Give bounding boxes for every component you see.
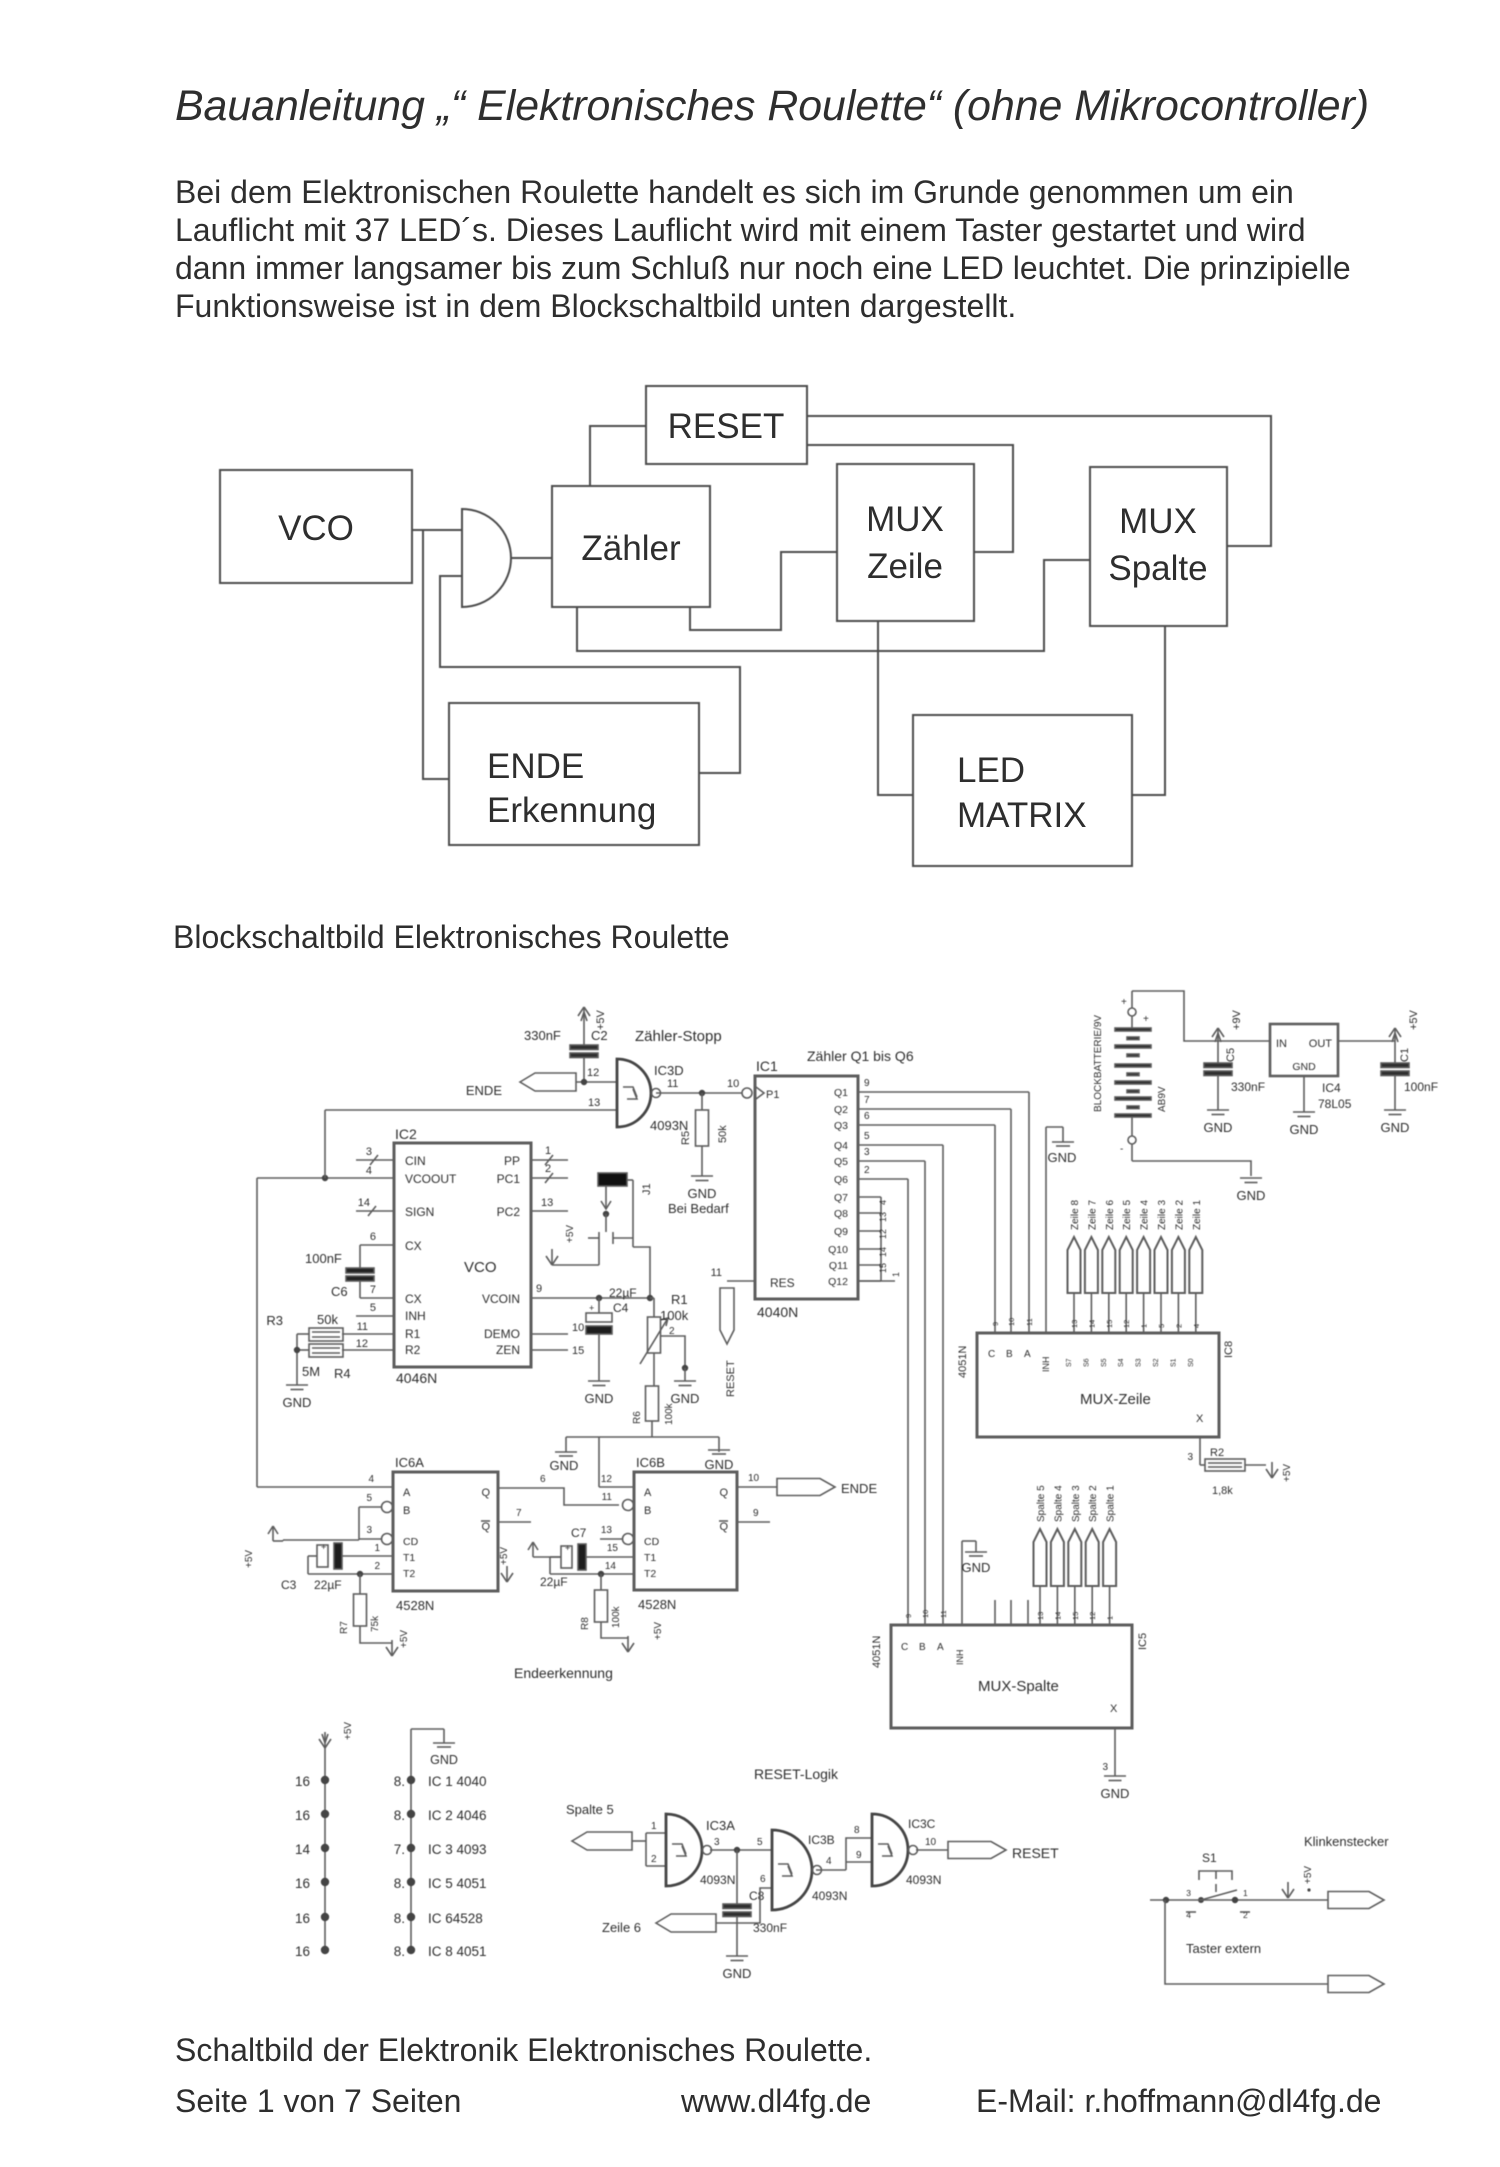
svg-text:15: 15 — [1105, 1320, 1114, 1328]
svg-text:LED: LED — [957, 751, 1025, 790]
svg-text:Q11: Q11 — [829, 1260, 848, 1272]
supply +9V antenna at C5 — [1212, 1009, 1243, 1044]
voltage regulator IC4 78L05 — [1270, 1024, 1352, 1112]
svg-text:+: + — [1121, 997, 1127, 1008]
svg-text:J1: J1 — [641, 1183, 653, 1195]
svg-text:+5V: +5V — [653, 1622, 664, 1640]
svg-text:6: 6 — [864, 1111, 870, 1122]
svg-text:GND: GND — [1048, 1150, 1077, 1165]
wire VCOOUT up to gate IC3D — [325, 1110, 617, 1178]
svg-text:Seite 1 von 7 Seiten: Seite 1 von 7 Seiten — [175, 2083, 461, 2119]
supply +5V above C2 — [578, 1007, 607, 1030]
svg-text:14: 14 — [1087, 1320, 1096, 1328]
wire R6 ground net — [566, 1437, 719, 1487]
node ENDE output connector — [777, 1479, 877, 1497]
svg-text:+: + — [321, 1542, 326, 1552]
MUX-Spalte 4051N box IC5 — [871, 1625, 1149, 1728]
ground GND at MUX-Zeile INH — [1046, 1127, 1076, 1333]
svg-text:IC3C: IC3C — [908, 1817, 936, 1831]
svg-text:13: 13 — [1070, 1320, 1079, 1328]
MUX Zeile box — [837, 464, 974, 621]
svg-text:C: C — [988, 1349, 995, 1360]
wire to lower connector — [1165, 1900, 1328, 1984]
svg-text:14: 14 — [295, 1842, 311, 1857]
svg-text:11: 11 — [1025, 1318, 1034, 1326]
svg-text:CX: CX — [405, 1292, 422, 1306]
svg-text:4051N: 4051N — [871, 1636, 883, 1668]
svg-text:50k: 50k — [317, 1312, 338, 1327]
svg-text:IC6A: IC6A — [395, 1455, 424, 1470]
jumper J1 — [598, 1173, 653, 1195]
svg-text:+: + — [1143, 1014, 1149, 1025]
battery BLOCKBATTERIE 9V — [1093, 991, 1168, 1161]
ground GND below C5 — [1204, 1110, 1233, 1135]
svg-text:12: 12 — [1088, 1612, 1097, 1620]
svg-text:Spalte 5: Spalte 5 — [1036, 1485, 1047, 1522]
supply +5V at IC6A B — [244, 1526, 283, 1568]
svg-text:+5V: +5V — [565, 1225, 576, 1243]
svg-text:+5V: +5V — [244, 1550, 255, 1568]
potentiometer R1 100k — [640, 1292, 689, 1364]
svg-text:MUX-Zeile: MUX-Zeile — [1080, 1391, 1151, 1408]
svg-text:P1: P1 — [766, 1089, 779, 1101]
svg-text:15: 15 — [878, 1263, 888, 1273]
svg-text:5: 5 — [864, 1131, 870, 1142]
IC6A Q-bar stub — [498, 1508, 531, 1522]
svg-text:16: 16 — [295, 1808, 310, 1823]
capacitor C5 330nF — [1204, 1044, 1265, 1110]
svg-text:+5V: +5V — [1408, 1009, 1420, 1030]
svg-text:2: 2 — [374, 1561, 380, 1572]
svg-text:12: 12 — [878, 1229, 888, 1239]
svg-text:8.: 8. — [394, 1774, 405, 1789]
op-amp gate IC3C 4093N — [872, 1814, 941, 1887]
wire IC6B T2 line — [550, 1557, 634, 1577]
svg-text:S0: S0 — [1188, 1358, 1195, 1367]
svg-text:+5V: +5V — [399, 1630, 410, 1648]
svg-text:9: 9 — [536, 1283, 542, 1295]
resistor R3 50k — [266, 1312, 394, 1350]
node Zeile 6 connector — [656, 1914, 716, 1932]
svg-text:+: + — [565, 1543, 570, 1553]
svg-text:3: 3 — [714, 1837, 720, 1848]
IC1 4040N counter box — [755, 1058, 858, 1320]
svg-text:78L05: 78L05 — [1318, 1097, 1352, 1111]
ground GND left of IC6B — [550, 1452, 579, 1473]
svg-text:S7: S7 — [1066, 1358, 1073, 1367]
svg-text:IC 3 4093: IC 3 4093 — [428, 1842, 487, 1857]
svg-text:Q1: Q1 — [834, 1087, 848, 1099]
transistor J1 FET — [552, 1180, 650, 1298]
svg-text:10: 10 — [748, 1473, 760, 1484]
svg-text:C7: C7 — [571, 1526, 587, 1540]
op-amp gate IC3B 4093N — [772, 1830, 847, 1910]
svg-text:Spalte 2: Spalte 2 — [1088, 1485, 1099, 1522]
svg-text:C: C — [901, 1642, 908, 1653]
ground GND below MUX-Spalte — [1101, 1776, 1130, 1801]
IC2 4046N VCO box — [394, 1126, 531, 1386]
svg-text:15: 15 — [572, 1345, 584, 1357]
svg-text:Spalte 4: Spalte 4 — [1053, 1485, 1064, 1522]
svg-text:BLOCKBATTERIE/9V: BLOCKBATTERIE/9V — [1093, 1015, 1104, 1112]
svg-text:+: + — [589, 1303, 594, 1313]
svg-text:GND: GND — [723, 1966, 752, 1981]
svg-text:1: 1 — [651, 1821, 657, 1832]
svg-text:22µF: 22µF — [609, 1286, 637, 1300]
svg-text:B: B — [403, 1505, 410, 1517]
AND gate (block diagram) — [462, 509, 511, 607]
svg-text:1: 1 — [1140, 1324, 1149, 1328]
svg-text:Bei Bedarf: Bei Bedarf — [668, 1201, 729, 1216]
svg-text:GND: GND — [1290, 1122, 1319, 1137]
svg-text:+9V: +9V — [1231, 1009, 1243, 1030]
svg-text:2: 2 — [545, 1163, 551, 1175]
svg-text:C3: C3 — [281, 1578, 297, 1592]
svg-text:GND: GND — [283, 1395, 312, 1410]
capacitor C7 22µF — [540, 1526, 634, 1589]
svg-text:Zeile 4: Zeile 4 — [1140, 1200, 1151, 1230]
svg-text:7: 7 — [864, 1095, 870, 1106]
wire battery plus to IC4 IN — [1132, 991, 1270, 1041]
node Spalte 5 connector — [572, 1832, 632, 1850]
svg-text:100k: 100k — [664, 1402, 675, 1425]
wire left rail into IC6A pin4 A — [368, 1474, 374, 1485]
svg-text:Q8: Q8 — [834, 1208, 848, 1220]
svg-text:Zeile 2: Zeile 2 — [1174, 1200, 1185, 1230]
svg-text:S2: S2 — [1153, 1358, 1160, 1367]
svg-text:S6: S6 — [1083, 1358, 1090, 1367]
svg-text:9: 9 — [753, 1508, 759, 1519]
wire Zähler bottom to MUX Spalte — [577, 560, 1090, 651]
svg-text:10: 10 — [925, 1837, 937, 1848]
wire Zähler bottom to MUX Zeile — [690, 552, 837, 630]
svg-text:16: 16 — [295, 1911, 310, 1926]
wire RESET to MUX Spalte — [807, 416, 1271, 546]
svg-text:PC2: PC2 — [497, 1205, 521, 1219]
svg-text:C4: C4 — [613, 1301, 629, 1315]
svg-text:R2: R2 — [405, 1343, 421, 1357]
wire VCOOUT net — [257, 1175, 394, 1181]
svg-text:R6: R6 — [632, 1411, 643, 1424]
capacitor C2 330nF — [524, 1023, 608, 1082]
capacitor C4 22µF — [586, 1286, 637, 1381]
resistor R7 75k — [339, 1574, 392, 1643]
svg-text:+5V: +5V — [595, 1009, 607, 1030]
svg-text:RESET: RESET — [725, 1360, 737, 1397]
svg-text:RES: RES — [770, 1276, 795, 1290]
resistor R6 100k — [632, 1353, 675, 1437]
wire Zähler top to RESET — [590, 426, 646, 486]
svg-text:Blockschaltbild Elektronisches: Blockschaltbild Elektronisches Roulette — [173, 919, 730, 955]
svg-text:22µF: 22µF — [540, 1575, 568, 1589]
svg-text:VCO: VCO — [278, 509, 354, 548]
svg-text:8.: 8. — [394, 1944, 405, 1959]
svg-text:16: 16 — [295, 1876, 310, 1891]
svg-text:B: B — [644, 1505, 651, 1517]
svg-text:C1: C1 — [1399, 1048, 1411, 1062]
svg-text:T1: T1 — [644, 1552, 656, 1564]
svg-text:IC3B: IC3B — [808, 1833, 835, 1847]
label RESET-Logik — [754, 1766, 839, 1782]
resistor R4 5M — [297, 1344, 394, 1381]
svg-text:4528N: 4528N — [396, 1598, 434, 1613]
svg-text:13: 13 — [601, 1525, 613, 1536]
IC6A +5V supply mark — [499, 1547, 513, 1582]
IC2 pin14 SIGN stub — [356, 1197, 394, 1216]
switch S1 — [1186, 1851, 1250, 1920]
svg-text:www.dl4fg.de: www.dl4fg.de — [680, 2083, 871, 2119]
svg-text:B: B — [919, 1642, 926, 1653]
supply +5V at R2 — [1266, 1462, 1293, 1482]
svg-text:8.: 8. — [394, 1808, 405, 1823]
svg-text:4093N: 4093N — [812, 1889, 847, 1903]
svg-text:5: 5 — [757, 1837, 763, 1848]
node RESET output connector — [948, 1842, 1059, 1862]
capacitor C6 100nF — [305, 1245, 394, 1316]
svg-text:1: 1 — [891, 1272, 901, 1277]
svg-text:PP: PP — [504, 1154, 520, 1168]
svg-text:4528N: 4528N — [638, 1597, 676, 1612]
svg-text:R1: R1 — [405, 1327, 421, 1341]
svg-text:IC4: IC4 — [1322, 1081, 1341, 1095]
svg-text:A: A — [644, 1487, 652, 1499]
svg-text:11: 11 — [939, 1610, 948, 1618]
IC6A 4528N box — [393, 1455, 498, 1613]
svg-text:Lauflicht mit 37 LED´s. Dieses: Lauflicht mit 37 LED´s. Dieses Lauflicht… — [175, 212, 1306, 248]
svg-text:9: 9 — [864, 1078, 870, 1089]
svg-text:R4: R4 — [334, 1366, 351, 1381]
svg-text:Taster extern: Taster extern — [1186, 1941, 1261, 1956]
svg-text:11: 11 — [357, 1321, 368, 1333]
IC6B Q-bar stub — [737, 1508, 770, 1522]
ENDE Erkennung box — [449, 703, 699, 845]
IC2 right pin10 DEMO stub — [531, 1322, 584, 1334]
resistor R5 50k — [680, 1093, 729, 1176]
wire switch main — [1150, 1897, 1328, 1903]
connectors Zeile 8..1 — [1068, 1200, 1203, 1333]
svg-text:3: 3 — [366, 1146, 372, 1158]
svg-text:GND: GND — [1292, 1061, 1316, 1073]
svg-text:Zeile 7: Zeile 7 — [1087, 1200, 1098, 1230]
svg-text:Q: Q — [481, 1521, 490, 1533]
wire IC6A T2 line — [308, 1556, 393, 1577]
wire into IC6B pin12 A — [599, 1474, 634, 1487]
svg-text:9: 9 — [856, 1850, 862, 1861]
svg-text:10: 10 — [921, 1610, 930, 1618]
svg-text:Zeile: Zeile — [867, 547, 943, 586]
LED MATRIX box — [913, 715, 1132, 866]
svg-text:7: 7 — [370, 1284, 376, 1296]
svg-text:Q: Q — [481, 1487, 490, 1499]
svg-text:4: 4 — [368, 1474, 374, 1485]
wire R3/R4 to ground — [294, 1334, 300, 1385]
svg-text:12: 12 — [356, 1338, 368, 1350]
svg-text:Klinkenstecker: Klinkenstecker — [1304, 1834, 1389, 1849]
IC6B pin11 B bubble — [602, 1492, 634, 1511]
IC2 right pin1 PP stub — [531, 1145, 568, 1165]
svg-text:4093N: 4093N — [650, 1118, 688, 1133]
wire gate output to Zähler — [511, 557, 552, 559]
svg-text:Zähler-Stopp: Zähler-Stopp — [635, 1028, 722, 1045]
svg-text:Spalte 3: Spalte 3 — [1071, 1485, 1082, 1522]
svg-text:2: 2 — [1174, 1324, 1183, 1328]
svg-text:SIGN: SIGN — [405, 1205, 434, 1219]
svg-text:A: A — [1024, 1349, 1031, 1360]
svg-text:MUX: MUX — [866, 500, 944, 539]
svg-text:4: 4 — [1192, 1324, 1201, 1328]
ground GND below C4 — [585, 1381, 614, 1406]
svg-text:T2: T2 — [403, 1568, 415, 1580]
ground GND below C1 — [1381, 1110, 1410, 1135]
svg-text:X: X — [1110, 1703, 1118, 1715]
svg-text:50k: 50k — [717, 1125, 729, 1143]
IC1 Q6 wire to MUX-Spalte C — [858, 1165, 913, 1626]
svg-text:Q3: Q3 — [834, 1120, 848, 1132]
RESET box — [646, 386, 807, 464]
svg-text:3: 3 — [1186, 1888, 1191, 1898]
IC6A pin5 B bubble — [359, 1493, 393, 1513]
IC2 right pin13 PC2 stub — [531, 1197, 568, 1211]
svg-text:R8: R8 — [580, 1617, 591, 1630]
IC1 Q7-Q12 unused stubs — [858, 1197, 901, 1281]
svg-text:10: 10 — [572, 1322, 584, 1334]
IC6A pin3 CD bubble — [359, 1525, 393, 1545]
supply +5V below R8 — [622, 1622, 664, 1652]
svg-text:S1: S1 — [1202, 1851, 1217, 1865]
svg-text:IN: IN — [1276, 1038, 1287, 1050]
svg-text:10: 10 — [1007, 1318, 1016, 1326]
svg-text:DEMO: DEMO — [484, 1327, 520, 1341]
svg-text:Erkennung: Erkennung — [487, 791, 656, 830]
wire R1 wiper to ground — [661, 1336, 688, 1381]
svg-text:Zeile 1: Zeile 1 — [1192, 1200, 1203, 1230]
svg-text:14: 14 — [1053, 1612, 1062, 1620]
svg-text:5: 5 — [370, 1302, 376, 1314]
label Zähler-Stopp — [635, 1028, 722, 1045]
IC1 Q2 wire to MUX-Zeile B — [858, 1095, 1016, 1333]
wire IC3C out to RESET — [916, 1837, 948, 1850]
IC1 Q3 wire to MUX-Zeile C — [858, 1111, 1000, 1333]
svg-text:9: 9 — [991, 1322, 1000, 1326]
svg-text:2: 2 — [864, 1165, 870, 1176]
op-amp gate IC3A 4093N — [666, 1814, 735, 1887]
capacitor C8 330nF — [723, 1850, 787, 1956]
svg-text:+5V: +5V — [343, 1722, 354, 1740]
svg-text:IC 64528: IC 64528 — [428, 1911, 483, 1926]
IC2 right pin15 ZEN stub — [531, 1345, 584, 1357]
svg-text:CD: CD — [403, 1536, 419, 1548]
svg-text:R2: R2 — [1210, 1447, 1224, 1459]
svg-text:B: B — [1006, 1349, 1013, 1360]
svg-text:RESET: RESET — [1012, 1845, 1059, 1861]
svg-text:4046N: 4046N — [396, 1370, 437, 1386]
label Taster extern — [1186, 1941, 1261, 1956]
svg-text:Zeile 8: Zeile 8 — [1070, 1200, 1081, 1230]
MUX Spalte box — [1090, 467, 1227, 626]
wire Zeile6 to IC3B — [716, 1874, 772, 1923]
svg-text:3: 3 — [864, 1147, 870, 1158]
svg-text:IC 5 4051: IC 5 4051 — [428, 1876, 487, 1891]
IC1 clock input bubble P1 — [742, 1087, 779, 1101]
svg-text:1,8k: 1,8k — [1212, 1485, 1233, 1497]
svg-text:CIN: CIN — [405, 1154, 426, 1168]
svg-text:Q: Q — [719, 1521, 728, 1533]
svg-text:VCOIN: VCOIN — [482, 1292, 520, 1306]
svg-text:Zeile 5: Zeile 5 — [1122, 1200, 1133, 1230]
svg-text:4093N: 4093N — [906, 1873, 941, 1887]
svg-text:PC1: PC1 — [497, 1172, 521, 1186]
svg-text:Q9: Q9 — [834, 1226, 848, 1238]
ground GND below R5 — [688, 1176, 717, 1201]
svg-text:-: - — [1120, 1144, 1123, 1155]
svg-text:8.: 8. — [394, 1911, 405, 1926]
svg-text:13: 13 — [541, 1197, 553, 1209]
MUX-Zeile 4051N box IC8 — [957, 1333, 1235, 1437]
svg-text:IC2: IC2 — [395, 1126, 417, 1142]
wire Spalte5 to IC3A — [632, 1821, 666, 1866]
svg-text:A: A — [937, 1642, 944, 1653]
svg-text:R7: R7 — [339, 1621, 350, 1634]
svg-text:RESET-Logik: RESET-Logik — [754, 1766, 839, 1782]
svg-text:Spalte: Spalte — [1108, 549, 1207, 588]
svg-text:VCO: VCO — [464, 1259, 497, 1276]
svg-text:100nF: 100nF — [1404, 1080, 1438, 1094]
svg-text:IC 8 4051: IC 8 4051 — [428, 1944, 487, 1959]
wire ENDE to gate IC3D — [576, 1067, 617, 1085]
supply +5V antenna at C1 — [1389, 1009, 1420, 1044]
svg-text:INH: INH — [1041, 1357, 1051, 1373]
svg-text:16: 16 — [295, 1774, 310, 1789]
svg-text:S3: S3 — [1136, 1358, 1143, 1367]
svg-text:100nF: 100nF — [305, 1251, 342, 1266]
svg-text:13: 13 — [878, 1212, 888, 1222]
svg-text:X: X — [1196, 1413, 1204, 1425]
svg-text:1: 1 — [374, 1543, 380, 1554]
resistor R2 1,8k — [1205, 1447, 1266, 1497]
svg-text:GND: GND — [585, 1391, 614, 1406]
label Endeerkennung — [514, 1665, 613, 1681]
label Klinkenstecker — [1304, 1834, 1389, 1849]
svg-text:Endeerkennung: Endeerkennung — [514, 1665, 613, 1681]
svg-text:100k: 100k — [660, 1308, 689, 1323]
svg-text:E-Mail: r.hoffmann@dl4fg.de: E-Mail: r.hoffmann@dl4fg.de — [976, 2083, 1381, 2119]
svg-text:5: 5 — [366, 1493, 372, 1504]
wire MUX Spalte to LED MATRIX — [1132, 626, 1165, 795]
wire gate lower input from ENDE Erkennung — [440, 576, 740, 773]
supply +5V arrow at C7 — [528, 1542, 561, 1557]
svg-text:IC5: IC5 — [1137, 1633, 1149, 1650]
svg-text:Schaltbild der Elektronik Elek: Schaltbild der Elektronik Elektronisches… — [175, 2032, 872, 2068]
svg-text:15: 15 — [607, 1543, 619, 1554]
svg-text:11: 11 — [711, 1267, 722, 1279]
svg-text:MATRIX: MATRIX — [957, 796, 1087, 835]
supply +5V at transistor gate — [546, 1225, 576, 1265]
svg-text:12: 12 — [1122, 1320, 1131, 1328]
wire VCO to gate — [412, 529, 462, 531]
svg-text:Q6: Q6 — [834, 1174, 848, 1186]
svg-text:14: 14 — [605, 1561, 617, 1572]
IC6B 4528N box — [634, 1455, 737, 1612]
svg-text:3: 3 — [366, 1525, 372, 1536]
svg-text:VCOOUT: VCOOUT — [405, 1172, 457, 1186]
IC2 pin3 CIN stub — [356, 1146, 394, 1177]
svg-text:330nF: 330nF — [524, 1028, 561, 1043]
svg-text:11: 11 — [602, 1492, 613, 1503]
svg-text:4051N: 4051N — [957, 1346, 969, 1378]
svg-text:IC 2 4046: IC 2 4046 — [428, 1808, 487, 1823]
svg-text:3: 3 — [1102, 1762, 1108, 1773]
wire IC3D output to IC1 — [656, 1078, 742, 1096]
